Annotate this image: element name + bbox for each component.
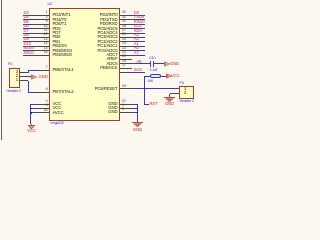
pin 31 PD1/TXD (right) (120, 19, 132, 20)
pin name PD0/RXD (100, 22, 118, 26)
header3 pin 3 (16, 70, 18, 74)
pin name AREF (107, 57, 118, 61)
pin 12 PB0 (left) (23, 37, 33, 38)
header3 pin 1 (16, 78, 18, 82)
net label RXD0 (134, 20, 145, 24)
pin 27 PC4/ADC4 (right) (120, 33, 132, 34)
net label D10 (24, 42, 31, 46)
connector P3 Header 2 body (179, 86, 194, 99)
net label MOSI (24, 46, 34, 50)
connector P2 Header 3 body (9, 68, 21, 88)
pin 32 PD2/INT0 (right) (120, 15, 132, 16)
pin 22 ADC7 (right) (120, 55, 132, 56)
pin number 24 (122, 42, 126, 46)
pin number 28 (122, 25, 126, 29)
net label SCL (134, 24, 142, 28)
pin 30 PD0/RXD (right) (120, 24, 132, 25)
junction (137, 108, 139, 110)
pin 14 PB2/SS (left) (23, 46, 33, 47)
pin 18 AVCC (38, 112, 49, 113)
pin None None (right) (120, 72, 132, 73)
net label A6 (137, 60, 142, 64)
pin number 14 (44, 42, 48, 46)
pin name PD6 (53, 27, 61, 31)
10K value label (148, 80, 154, 83)
net label A2 (134, 37, 139, 41)
pin 5 GND (120, 112, 133, 113)
pin name PD4/T0 (53, 18, 67, 22)
pin 29 PC6/RESET (120, 88, 132, 89)
capacitor C10 label (149, 57, 155, 61)
pin number 20 (122, 55, 126, 59)
pin name PB5/SCK (100, 66, 117, 70)
net label D2 (134, 11, 139, 15)
net label SDA (134, 29, 142, 33)
net label A3 (134, 33, 139, 37)
pin name ADC6 (107, 62, 118, 66)
pin 16 PB4/MISO (left) (23, 55, 33, 56)
net label TXD0 (134, 15, 144, 19)
pin number 16 (44, 51, 48, 55)
VCC text (2, 129, 62, 133)
pin number 12 (44, 33, 48, 37)
pin name PC2/ADC2 (97, 40, 117, 44)
junction (144, 88, 146, 90)
IC U2 mega328 body (49, 8, 120, 121)
pin name PB0 (53, 35, 61, 39)
pin name PC0/ADC0 (97, 49, 117, 53)
pin 3 GND (120, 108, 133, 109)
pin 25 PC2/ADC2 (right) (120, 41, 132, 42)
wire RESET up to resistor (144, 76, 145, 89)
pin name PD2/INT0 (100, 13, 118, 17)
net label D5 (24, 20, 29, 24)
designator P2 (8, 63, 12, 67)
pin number 27 (122, 29, 126, 33)
pin 10 PD6 (left) (23, 28, 33, 29)
wire header3 pin3 to XTAL1 (20, 72, 28, 73)
pin name PC5/ADC5 (97, 27, 117, 31)
pin 28 PC5/ADC5 (right) (120, 28, 132, 29)
pin 15 PB3/MOSI (left) (23, 50, 33, 51)
part name mega328 (51, 122, 64, 125)
net label A0 (134, 46, 139, 50)
net label D7 (24, 29, 29, 33)
pin number 22 (122, 51, 126, 55)
header3 pin 2 (16, 74, 18, 78)
pin number 10 (44, 25, 48, 29)
name Header 3 (7, 90, 21, 94)
pin number 19 (122, 60, 126, 64)
power port VCC (down arrow) (26, 124, 38, 130)
pin name PD1/TXD (100, 18, 117, 22)
net label MISO (24, 51, 34, 55)
ground arrow (C10) (164, 61, 171, 67)
pin name PC1/ADC1 (97, 44, 117, 48)
wire AREF to C10 (132, 63, 151, 64)
pin name PB2/SS (53, 44, 67, 48)
net label D3 (24, 11, 29, 15)
pin number 23 (122, 47, 126, 51)
GND text (140, 102, 200, 106)
pin 24 PC1/ADC1 (right) (120, 46, 132, 47)
pin 11 PD7 (left) (23, 33, 33, 34)
pin name PD5/T1 (53, 22, 67, 26)
pin number 15 (44, 47, 48, 51)
pin 17 PB5/SCK (right) (120, 68, 132, 69)
designator P3 (180, 82, 184, 86)
wire RESET to header2 pin1 (132, 88, 180, 89)
ground arrow (header3 pin2) (31, 74, 38, 80)
ground symbol (header2) (164, 97, 175, 103)
pin name PD3/INT1 (53, 13, 71, 17)
junction (30, 112, 32, 114)
pin name PC4/ADC4 (97, 31, 117, 35)
GND text (108, 128, 168, 132)
junction (137, 112, 139, 114)
pin 7 PB6/XTAL1 (36, 70, 49, 71)
ground symbol (chip) (132, 122, 143, 128)
pin number 26 (122, 33, 126, 37)
pin 1 PD3/INT1 (left) (23, 15, 33, 16)
power port VCC (right arrow) (166, 73, 173, 79)
wire RESET down to RST label (144, 89, 145, 105)
pin number 25 (122, 38, 126, 42)
wire GND rail vertical (137, 105, 138, 123)
net label D8 (24, 33, 29, 37)
name Header 2 (180, 100, 194, 104)
pin name PB4/MISO (53, 53, 72, 57)
net label SCK (134, 68, 142, 72)
GND text (170, 62, 179, 66)
resistor R 10K (145, 76, 150, 77)
pin name PB1 (53, 40, 61, 44)
pin number 31 (122, 16, 126, 20)
pin 20 AREF (right) (120, 59, 132, 60)
pin number 2 (46, 16, 48, 20)
sheet border line (1, 0, 2, 140)
pin number 11 (44, 29, 48, 33)
pin 21 GND (120, 104, 133, 105)
header2 pin2 wire to ground (170, 93, 180, 94)
net label D9 (24, 37, 29, 41)
pin 23 PC0/ADC0 (right) (120, 50, 132, 51)
header2 pin 1 (184, 87, 186, 91)
pin name PD7 (53, 31, 61, 35)
pin number 30 (122, 20, 126, 24)
pin number 32 (122, 11, 126, 15)
capacitor C10 plates (150, 61, 151, 67)
pin number 17 (122, 64, 126, 68)
pin name PB3/MOSI (53, 49, 72, 53)
pin 13 PB1 (left) (23, 41, 33, 42)
pin 26 PC3/ADC3 (right) (120, 37, 132, 38)
0.1uF value label (150, 69, 158, 72)
junction (30, 108, 32, 110)
designator U2 (48, 3, 52, 7)
net label D6 (24, 24, 29, 28)
GND text (39, 75, 48, 79)
header2 pin 2 (184, 91, 186, 95)
pin 4 VCC (38, 104, 49, 105)
pin name PC3/ADC3 (97, 35, 117, 39)
net label A1 (134, 42, 139, 46)
pin 8 PB7/XTAL2 (36, 92, 49, 93)
net label RST (150, 102, 158, 106)
pin 19 ADC6 (right) (120, 63, 132, 64)
net label D4 (24, 15, 29, 19)
pin 6 VCC (38, 108, 49, 109)
header3 pin2 stub (20, 76, 31, 77)
pin 9 PD5/T1 (left) (23, 24, 33, 25)
wire header3 pin1 to XTAL2 (20, 80, 28, 81)
pin number 9 (46, 20, 48, 24)
VCC text (171, 74, 180, 78)
pin 2 PD4/T0 (left) (23, 19, 33, 20)
net label A7 (134, 51, 139, 55)
wire VCC rail vertical (30, 104, 31, 124)
pin number 13 (44, 38, 48, 42)
pin name ADC7 (107, 53, 118, 57)
pin number 1 (46, 11, 48, 15)
